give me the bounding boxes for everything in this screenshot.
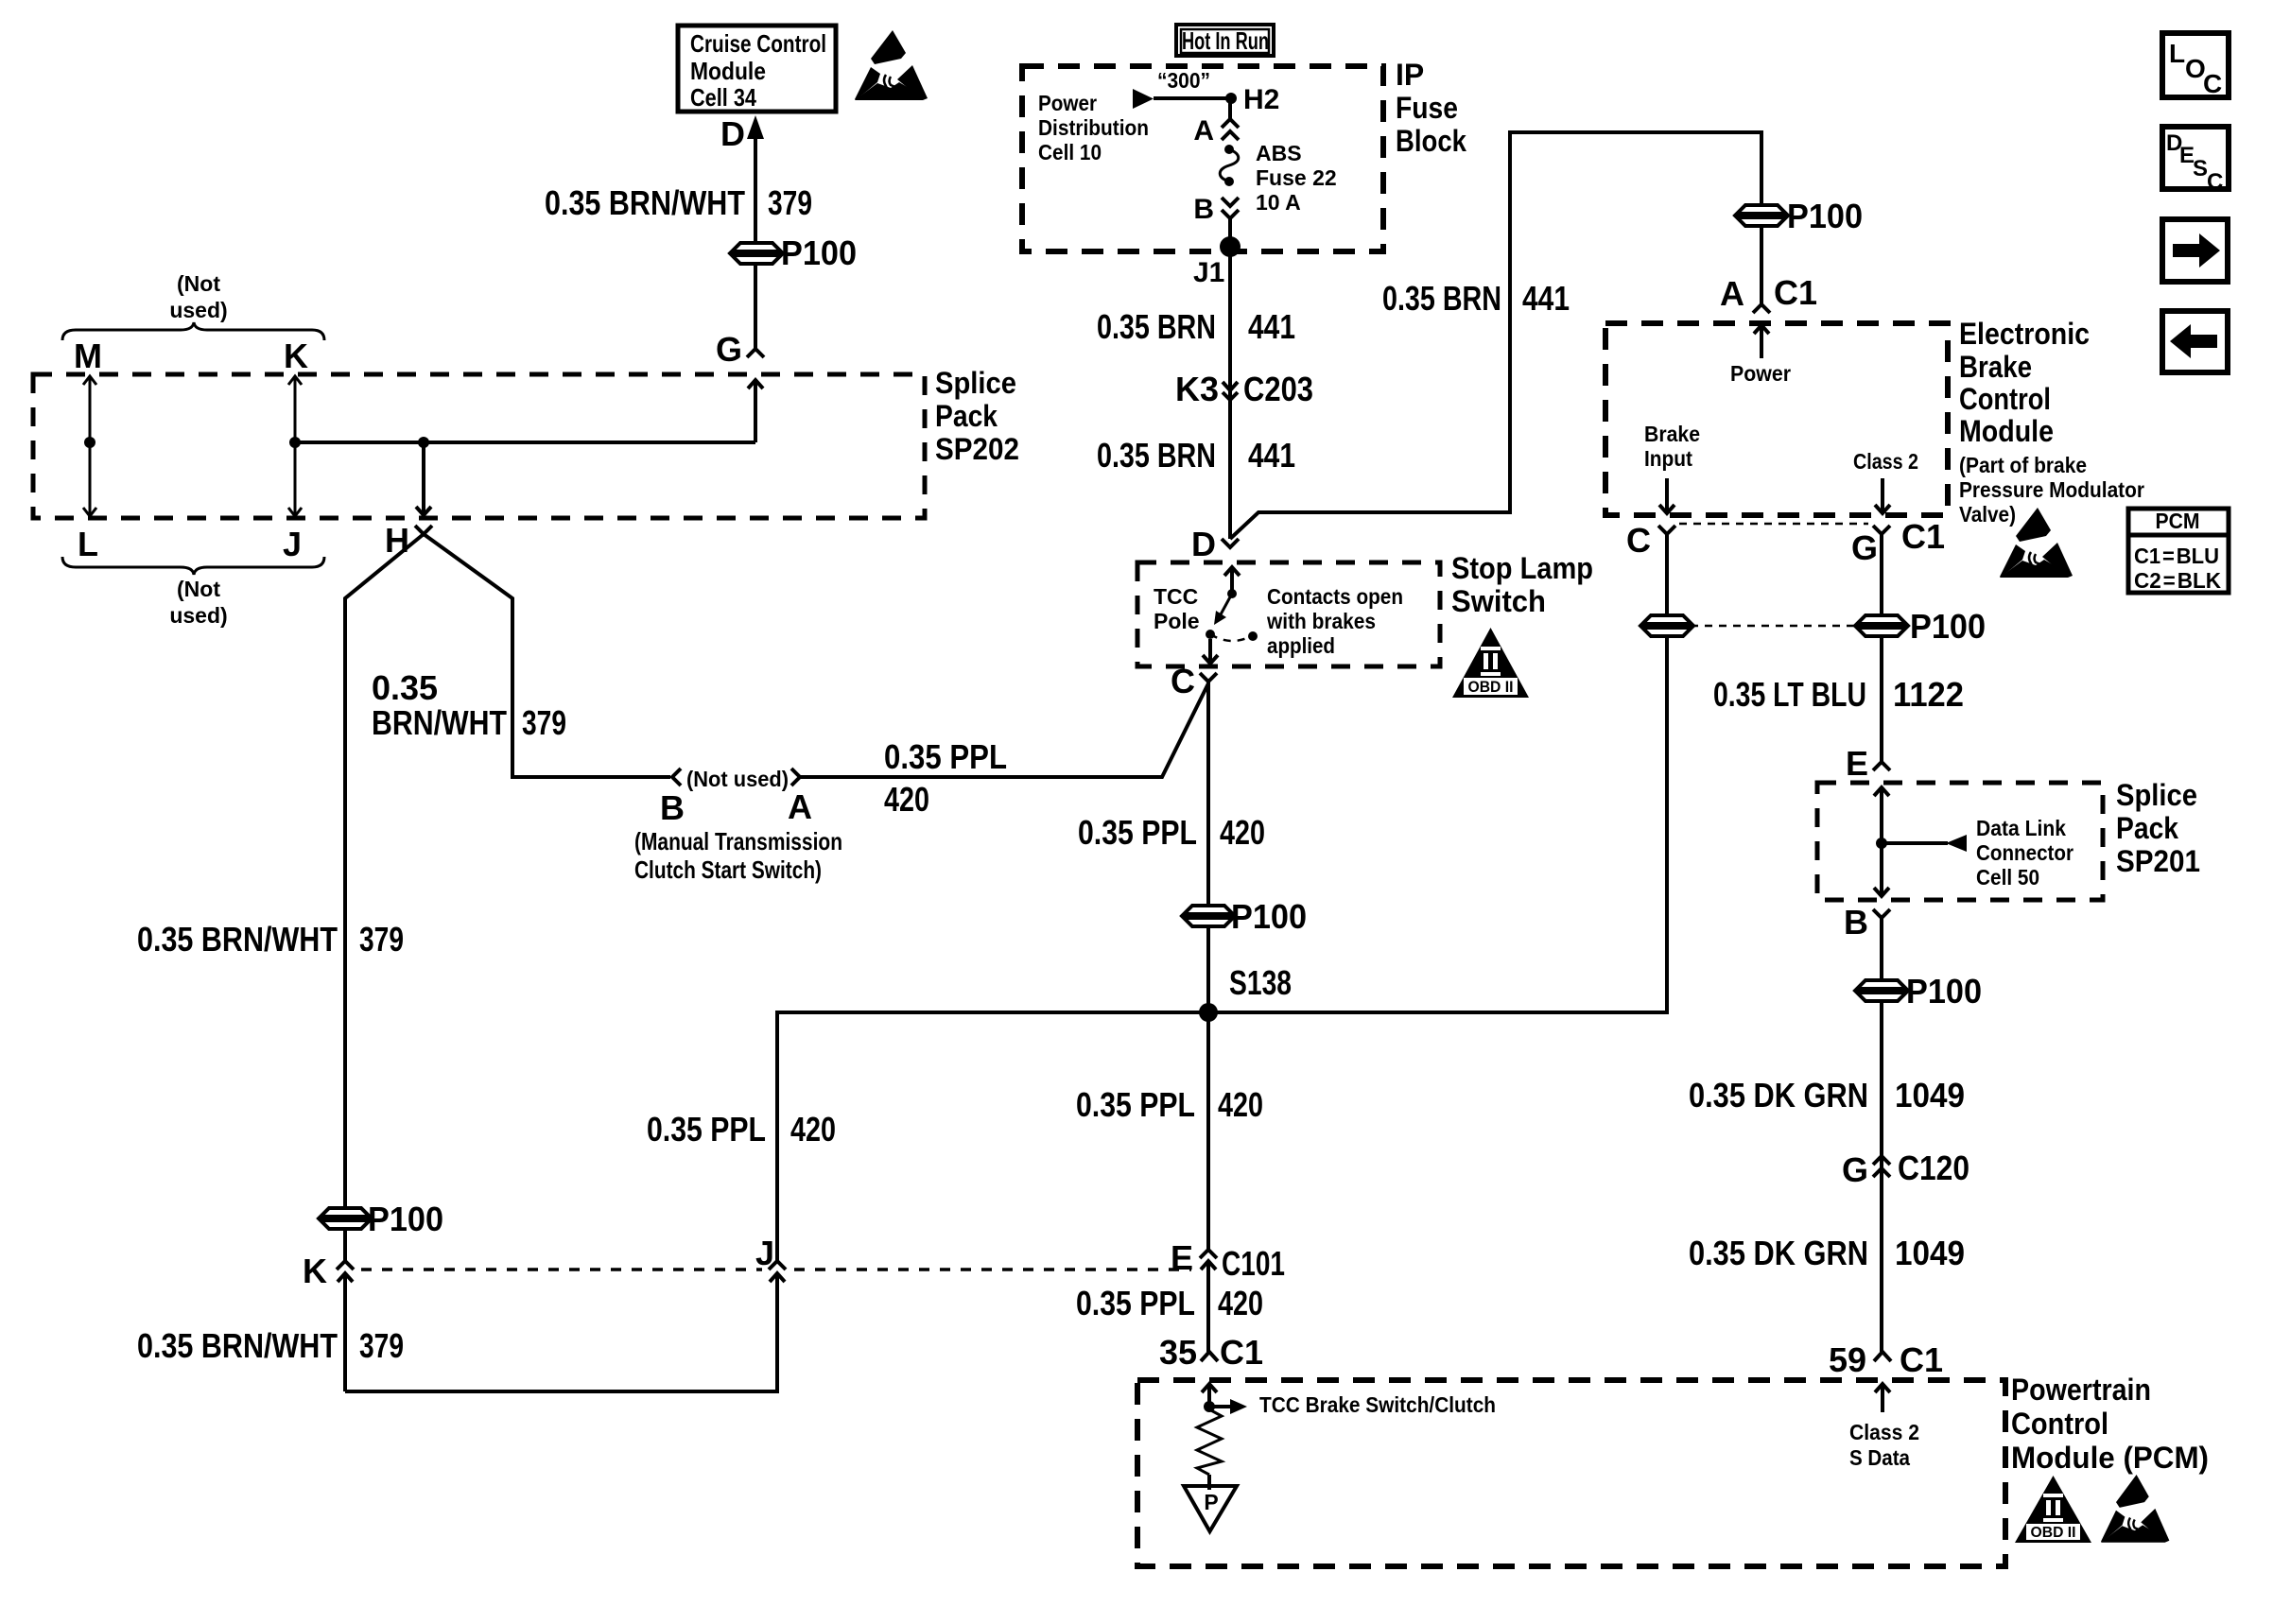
svg-text:C101: C101 [1222, 1244, 1285, 1283]
svg-text:(Not: (Not [177, 577, 220, 601]
svg-text:C: C [2207, 169, 2223, 195]
dashed travel arc [1210, 634, 1251, 641]
pin B chevron (below SP201) [1873, 909, 1890, 918]
PCM legend box [2128, 509, 2229, 593]
svg-text:C: C [1171, 662, 1195, 700]
wire PPL 420 (J up to S138) [777, 1012, 1208, 1261]
svg-text:P100: P100 [781, 233, 857, 272]
splice pack SP202 box [33, 374, 925, 518]
svg-text:K: K [303, 1252, 327, 1290]
svg-text:Powertrain: Powertrain [2011, 1373, 2151, 1407]
svg-text:BRN/WHT: BRN/WHT [372, 703, 507, 742]
pin D male arrow (inside box) [1224, 567, 1240, 594]
ESD symbol (EBCM) [2000, 508, 2073, 578]
svg-text:35: 35 [1159, 1333, 1197, 1372]
inline connector P100 (cruise wire) [732, 243, 781, 264]
pin arrow Class 2 (inside EBCM) [1875, 478, 1890, 513]
svg-text:SP201: SP201 [2116, 844, 2200, 878]
Hot In Run box [1176, 25, 1274, 56]
svg-text:1049: 1049 [1895, 1234, 1965, 1272]
svg-text:1122: 1122 [1893, 675, 1964, 714]
svg-text:“300”: “300” [1157, 68, 1210, 93]
svg-text:PCM: PCM [2156, 509, 2200, 533]
svg-text:C120: C120 [1898, 1149, 1969, 1187]
wire H2 to fuse [1228, 98, 1232, 119]
svg-text:D: D [1191, 525, 1216, 563]
svg-text:Splice: Splice [935, 366, 1016, 400]
svg-text:P100: P100 [1231, 897, 1307, 936]
wire BRN/WHT 379 (cruise module to G) [754, 132, 757, 349]
svg-text:E: E [1171, 1238, 1193, 1277]
svg-text:Pressure Modulator: Pressure Modulator [1959, 477, 2144, 502]
pin arrow G (inside SP202) [748, 379, 763, 442]
junction dot (SP202 bus) [418, 437, 429, 448]
wire (H down right to B) [424, 534, 670, 777]
svg-text:C1: C1 [1774, 273, 1817, 312]
svg-text:Stop Lamp: Stop Lamp [1451, 551, 1593, 585]
pin B double chevron (fuse 22) [1222, 198, 1239, 218]
pin arrow E (inside SP201) [1874, 787, 1889, 843]
svg-text:Splice: Splice [2116, 778, 2197, 812]
svg-text:C: C [1626, 521, 1651, 560]
pin D arrow (into cruise module) [747, 115, 764, 139]
svg-text:D: D [720, 114, 745, 153]
svg-text:P100: P100 [1910, 607, 1986, 646]
svg-text:0.35 BRN: 0.35 BRN [1097, 436, 1216, 475]
svg-text:J: J [755, 1234, 774, 1272]
svg-text:Class 2: Class 2 [1849, 1420, 1919, 1444]
svg-text:SP202: SP202 [935, 432, 1019, 466]
wire class 2 (G down to SP201 E) [1880, 534, 1883, 762]
svg-text:0.35 PPL: 0.35 PPL [1076, 1284, 1195, 1322]
svg-text:P100: P100 [1787, 197, 1863, 235]
svg-text:Brake: Brake [1959, 350, 2032, 384]
pin A chevron [791, 769, 800, 786]
node J1 [1220, 236, 1241, 257]
svg-text:Input: Input [1644, 446, 1692, 471]
wire DK GRN 1049 (B to PCM 59) [1880, 918, 1883, 1352]
svg-text:420: 420 [1218, 1284, 1263, 1322]
OBD II triangle (PCM) [2015, 1476, 2091, 1543]
svg-text:C: C [2203, 69, 2222, 98]
svg-text:Pole: Pole [1154, 609, 1200, 633]
svg-text:Cruise Control: Cruise Control [690, 29, 826, 58]
svg-text:A: A [1193, 115, 1214, 147]
svg-text:Pack: Pack [935, 399, 998, 433]
svg-text:M: M [74, 337, 102, 375]
svg-text:OBD II: OBD II [2031, 1525, 2076, 1541]
ESD symbol (cruise control module) [855, 30, 928, 100]
pin G C1 chevron (EBCM class2) [1873, 526, 1890, 534]
svg-text:Module: Module [690, 57, 766, 85]
wire BRN 441 (J1 to D) [1228, 247, 1232, 539]
pin A C1 chevron [1753, 304, 1770, 313]
powertrain control module dashed box [1137, 1380, 2005, 1566]
svg-text:379: 379 [359, 920, 404, 959]
wire BRN/WHT 379 (H down left) [345, 534, 424, 1261]
svg-text:10 A: 10 A [1256, 190, 1301, 215]
svg-text:used): used) [169, 298, 227, 322]
icon box LOC [2162, 33, 2229, 98]
svg-text:G: G [1851, 528, 1878, 567]
wire to H2 [1154, 96, 1231, 100]
pin A double chevron (fuse 22) [1222, 119, 1239, 140]
svg-text:441: 441 [1522, 279, 1570, 318]
svg-text:used): used) [169, 603, 227, 628]
connector C101 dashed line K-J-E [361, 1268, 762, 1271]
svg-text:C1: C1 [1220, 1333, 1263, 1372]
pin C male arrow (inside box) [1203, 639, 1218, 664]
arrow to ground [1207, 1475, 1211, 1490]
pin B chevron [672, 769, 681, 786]
ground P triangle [1184, 1486, 1237, 1531]
switch arm [1214, 594, 1232, 625]
wire PPL 420 (C to C101 E) [1206, 682, 1210, 1250]
svg-text:0.35 PPL: 0.35 PPL [1078, 813, 1197, 852]
ESD symbol (PCM) [2101, 1475, 2169, 1543]
svg-text:B: B [1844, 903, 1868, 942]
wire BRN 441 (D up right to EBCM) [1230, 132, 1761, 539]
wire (S138 right to brake input C) [1208, 534, 1667, 1012]
svg-text:0.35 BRN/WHT: 0.35 BRN/WHT [137, 920, 338, 959]
pin arrow 35 (inside PCM) [1202, 1384, 1217, 1409]
svg-text:P100: P100 [1906, 972, 1982, 1011]
svg-text:Power: Power [1038, 91, 1097, 115]
svg-text:IP: IP [1396, 58, 1424, 92]
pin arrow B (inside SP201) [1874, 843, 1889, 896]
arrow TCC Brake Switch/Clutch [1209, 1399, 1247, 1414]
svg-text:Fuse 22: Fuse 22 [1256, 165, 1337, 190]
brace bottom (not used) [62, 557, 324, 575]
svg-text:(Not: (Not [177, 271, 220, 296]
pin D chevron [1222, 539, 1239, 547]
electronic brake control module dashed box [1605, 323, 1948, 515]
svg-text:0.35 PPL: 0.35 PPL [884, 737, 1007, 776]
svg-text:Power: Power [1730, 361, 1791, 386]
svg-text:Electronic: Electronic [1959, 317, 2090, 351]
svg-text:C1: C1 [1900, 1340, 1943, 1379]
svg-text:B: B [660, 788, 685, 827]
svg-text:C2 = BLK: C2 = BLK [2134, 568, 2221, 593]
svg-text:Clutch Start Switch): Clutch Start Switch) [634, 855, 822, 884]
svg-text:E: E [1846, 744, 1868, 783]
pin K chevron (C101) [337, 1261, 354, 1270]
svg-text:0.35 BRN: 0.35 BRN [1382, 279, 1501, 318]
svg-text:0.35 PPL: 0.35 PPL [647, 1110, 766, 1149]
arrow from power distribution [1133, 89, 1154, 109]
svg-text:(Part of brake: (Part of brake [1959, 453, 2087, 477]
pin 59 C1 chevron (PCM) [1874, 1352, 1891, 1361]
svg-text:Valve): Valve) [1959, 502, 2016, 527]
inline connector P100 (left wire) [321, 1208, 370, 1229]
node H2 [1225, 93, 1237, 104]
inline connector P100 (DK GRN wire) [1857, 980, 1906, 1001]
svg-text:379: 379 [768, 183, 812, 222]
svg-text:420: 420 [884, 780, 929, 819]
connector C120 pin G [1873, 1156, 1890, 1177]
svg-text:S Data: S Data [1849, 1445, 1910, 1470]
svg-text:59: 59 [1829, 1340, 1866, 1379]
fuse ABS Fuse 22 10A [1220, 145, 1239, 186]
svg-text:A: A [1720, 274, 1744, 313]
pin 35 C1 chevron (PCM) [1201, 1352, 1218, 1361]
module box Cruise Control Module Cell 34 [678, 26, 836, 112]
pin E chevron (SP201) [1873, 762, 1890, 770]
svg-text:H2: H2 [1243, 84, 1279, 115]
svg-text:Distribution: Distribution [1038, 115, 1149, 140]
svg-text:TCC Brake Switch/Clutch: TCC Brake Switch/Clutch [1259, 1392, 1496, 1417]
svg-text:L: L [2169, 39, 2185, 68]
svg-text:0.35 PPL: 0.35 PPL [1076, 1085, 1195, 1124]
switch contact (lower) [1206, 630, 1215, 639]
svg-text:L: L [78, 525, 98, 563]
splice pack SP201 box [1817, 783, 2103, 900]
svg-text:Cell 50: Cell 50 [1976, 865, 2039, 890]
svg-text:B: B [1193, 194, 1214, 225]
svg-text:Cell 10: Cell 10 [1038, 140, 1102, 164]
svg-text:420: 420 [1218, 1085, 1263, 1124]
svg-text:0.35 LT BLU: 0.35 LT BLU [1713, 675, 1866, 714]
svg-text:ABS: ABS [1256, 141, 1302, 165]
wire fuse B to J1 [1228, 218, 1232, 248]
svg-text:Connector: Connector [1976, 840, 2073, 865]
svg-text:0.35 BRN/WHT: 0.35 BRN/WHT [137, 1326, 338, 1365]
svg-text:TCC: TCC [1154, 584, 1198, 609]
svg-text:Data Link: Data Link [1976, 816, 2066, 840]
pin H chevron [415, 526, 432, 534]
contact dot (brakes applied) [1248, 631, 1258, 641]
pin arrow 59 (inside PCM) [1875, 1384, 1890, 1412]
svg-text:Pack: Pack [2116, 811, 2178, 845]
svg-text:0.35 BRN: 0.35 BRN [1097, 307, 1216, 346]
icon box DESC [2162, 127, 2229, 195]
pin arrow Power (inside EBCM) [1754, 325, 1769, 358]
svg-text:A: A [788, 787, 812, 826]
pin E male arrow (below C101) [1201, 1261, 1216, 1352]
svg-text:G: G [1842, 1150, 1868, 1189]
wire (SP202 internal bus) [295, 441, 755, 444]
svg-text:Contacts open: Contacts open [1267, 584, 1403, 609]
splice M-L (not used) [83, 376, 96, 516]
icon box arrow right [2162, 219, 2228, 282]
svg-text:J1: J1 [1193, 257, 1224, 288]
inline connector P100 (EBCM power wire) [1737, 205, 1786, 226]
node TCC branch [1204, 1401, 1215, 1412]
svg-text:379: 379 [359, 1326, 404, 1365]
stop lamp switch dashed box [1137, 562, 1440, 666]
svg-text:0.35 DK GRN: 0.35 DK GRN [1689, 1076, 1868, 1114]
svg-text:420: 420 [1220, 813, 1265, 852]
svg-text:with brakes: with brakes [1266, 609, 1376, 633]
inline connector P100 (brake input wire) [1642, 615, 1692, 636]
pin C chevron (EBCM brake input) [1658, 526, 1675, 534]
connector C203 pin K3 [1223, 382, 1238, 400]
svg-text:(Not used): (Not used) [686, 767, 789, 791]
svg-text:P100: P100 [368, 1200, 443, 1238]
svg-text:C203: C203 [1243, 370, 1313, 408]
svg-text:441: 441 [1248, 436, 1295, 475]
inline connector P100 (class 2 wire) [1857, 615, 1906, 636]
svg-text:1049: 1049 [1895, 1076, 1965, 1114]
wire PPL 420 (A to stop lamp C) [800, 683, 1208, 777]
pin J chevron (C101) [769, 1261, 786, 1270]
svg-text:379: 379 [522, 703, 566, 742]
inline connector P100 (PPL wire) [1184, 906, 1233, 926]
pin C chevron [1200, 673, 1217, 682]
svg-text:P: P [1204, 1490, 1218, 1514]
pin arrow Brake Input (inside EBCM) [1659, 478, 1674, 513]
svg-text:(Manual Transmission: (Manual Transmission [634, 827, 842, 855]
svg-text:C1: C1 [1901, 517, 1945, 556]
svg-text:441: 441 [1248, 307, 1295, 346]
connector C1 dashed link [1679, 523, 1868, 526]
branch to data link connector [1882, 835, 1967, 852]
svg-text:K3: K3 [1175, 370, 1219, 408]
brace top (not used) [62, 322, 324, 340]
svg-text:Module (PCM): Module (PCM) [2011, 1441, 2209, 1475]
svg-text:OBD II: OBD II [1468, 678, 1514, 696]
svg-text:applied: applied [1267, 633, 1335, 658]
IP fuse block dashed box [1022, 66, 1383, 251]
pin arrow H (inside SP202) [416, 442, 431, 516]
svg-text:Block: Block [1396, 124, 1466, 158]
svg-text:0.35 BRN/WHT: 0.35 BRN/WHT [545, 183, 745, 222]
svg-text:G: G [716, 330, 742, 369]
svg-text:Brake: Brake [1644, 422, 1700, 446]
svg-text:Class 2: Class 2 [1853, 449, 1918, 474]
svg-text:J: J [283, 525, 302, 563]
svg-text:0.35: 0.35 [372, 668, 438, 707]
splice node SP201 [1876, 838, 1887, 849]
icon box arrow left [2162, 311, 2228, 372]
svg-text:Hot In Run: Hot In Run [1182, 26, 1269, 55]
svg-text:Fuse: Fuse [1396, 91, 1458, 125]
svg-text:C1 = BLU: C1 = BLU [2134, 544, 2219, 568]
OBD II triangle (stop lamp switch) [1452, 628, 1529, 698]
splice K-J (not used) [288, 376, 302, 516]
svg-text:S138: S138 [1229, 963, 1292, 1002]
TCC pole switch contact (upper) [1227, 589, 1237, 598]
pin J male arrow (below C101) [770, 1273, 785, 1282]
resistor (inside PCM) [1197, 1409, 1222, 1475]
svg-text:Control: Control [2011, 1407, 2108, 1441]
svg-text:Control: Control [1959, 382, 2051, 416]
svg-text:Module: Module [1959, 414, 2054, 448]
svg-text:S: S [2193, 156, 2208, 181]
svg-text:420: 420 [790, 1110, 836, 1149]
svg-text:K: K [284, 337, 308, 375]
svg-text:Cell 34: Cell 34 [690, 83, 756, 112]
pin G chevron (SP202) [747, 349, 764, 357]
wire loop K to J [345, 1273, 777, 1391]
svg-text:Switch: Switch [1451, 584, 1546, 618]
pin E chevron (C101) [1200, 1250, 1217, 1258]
svg-text:0.35 DK GRN: 0.35 DK GRN [1689, 1234, 1868, 1272]
pin K male arrow (below C101) [338, 1273, 353, 1391]
connector P100 dashed link [1691, 625, 1855, 628]
